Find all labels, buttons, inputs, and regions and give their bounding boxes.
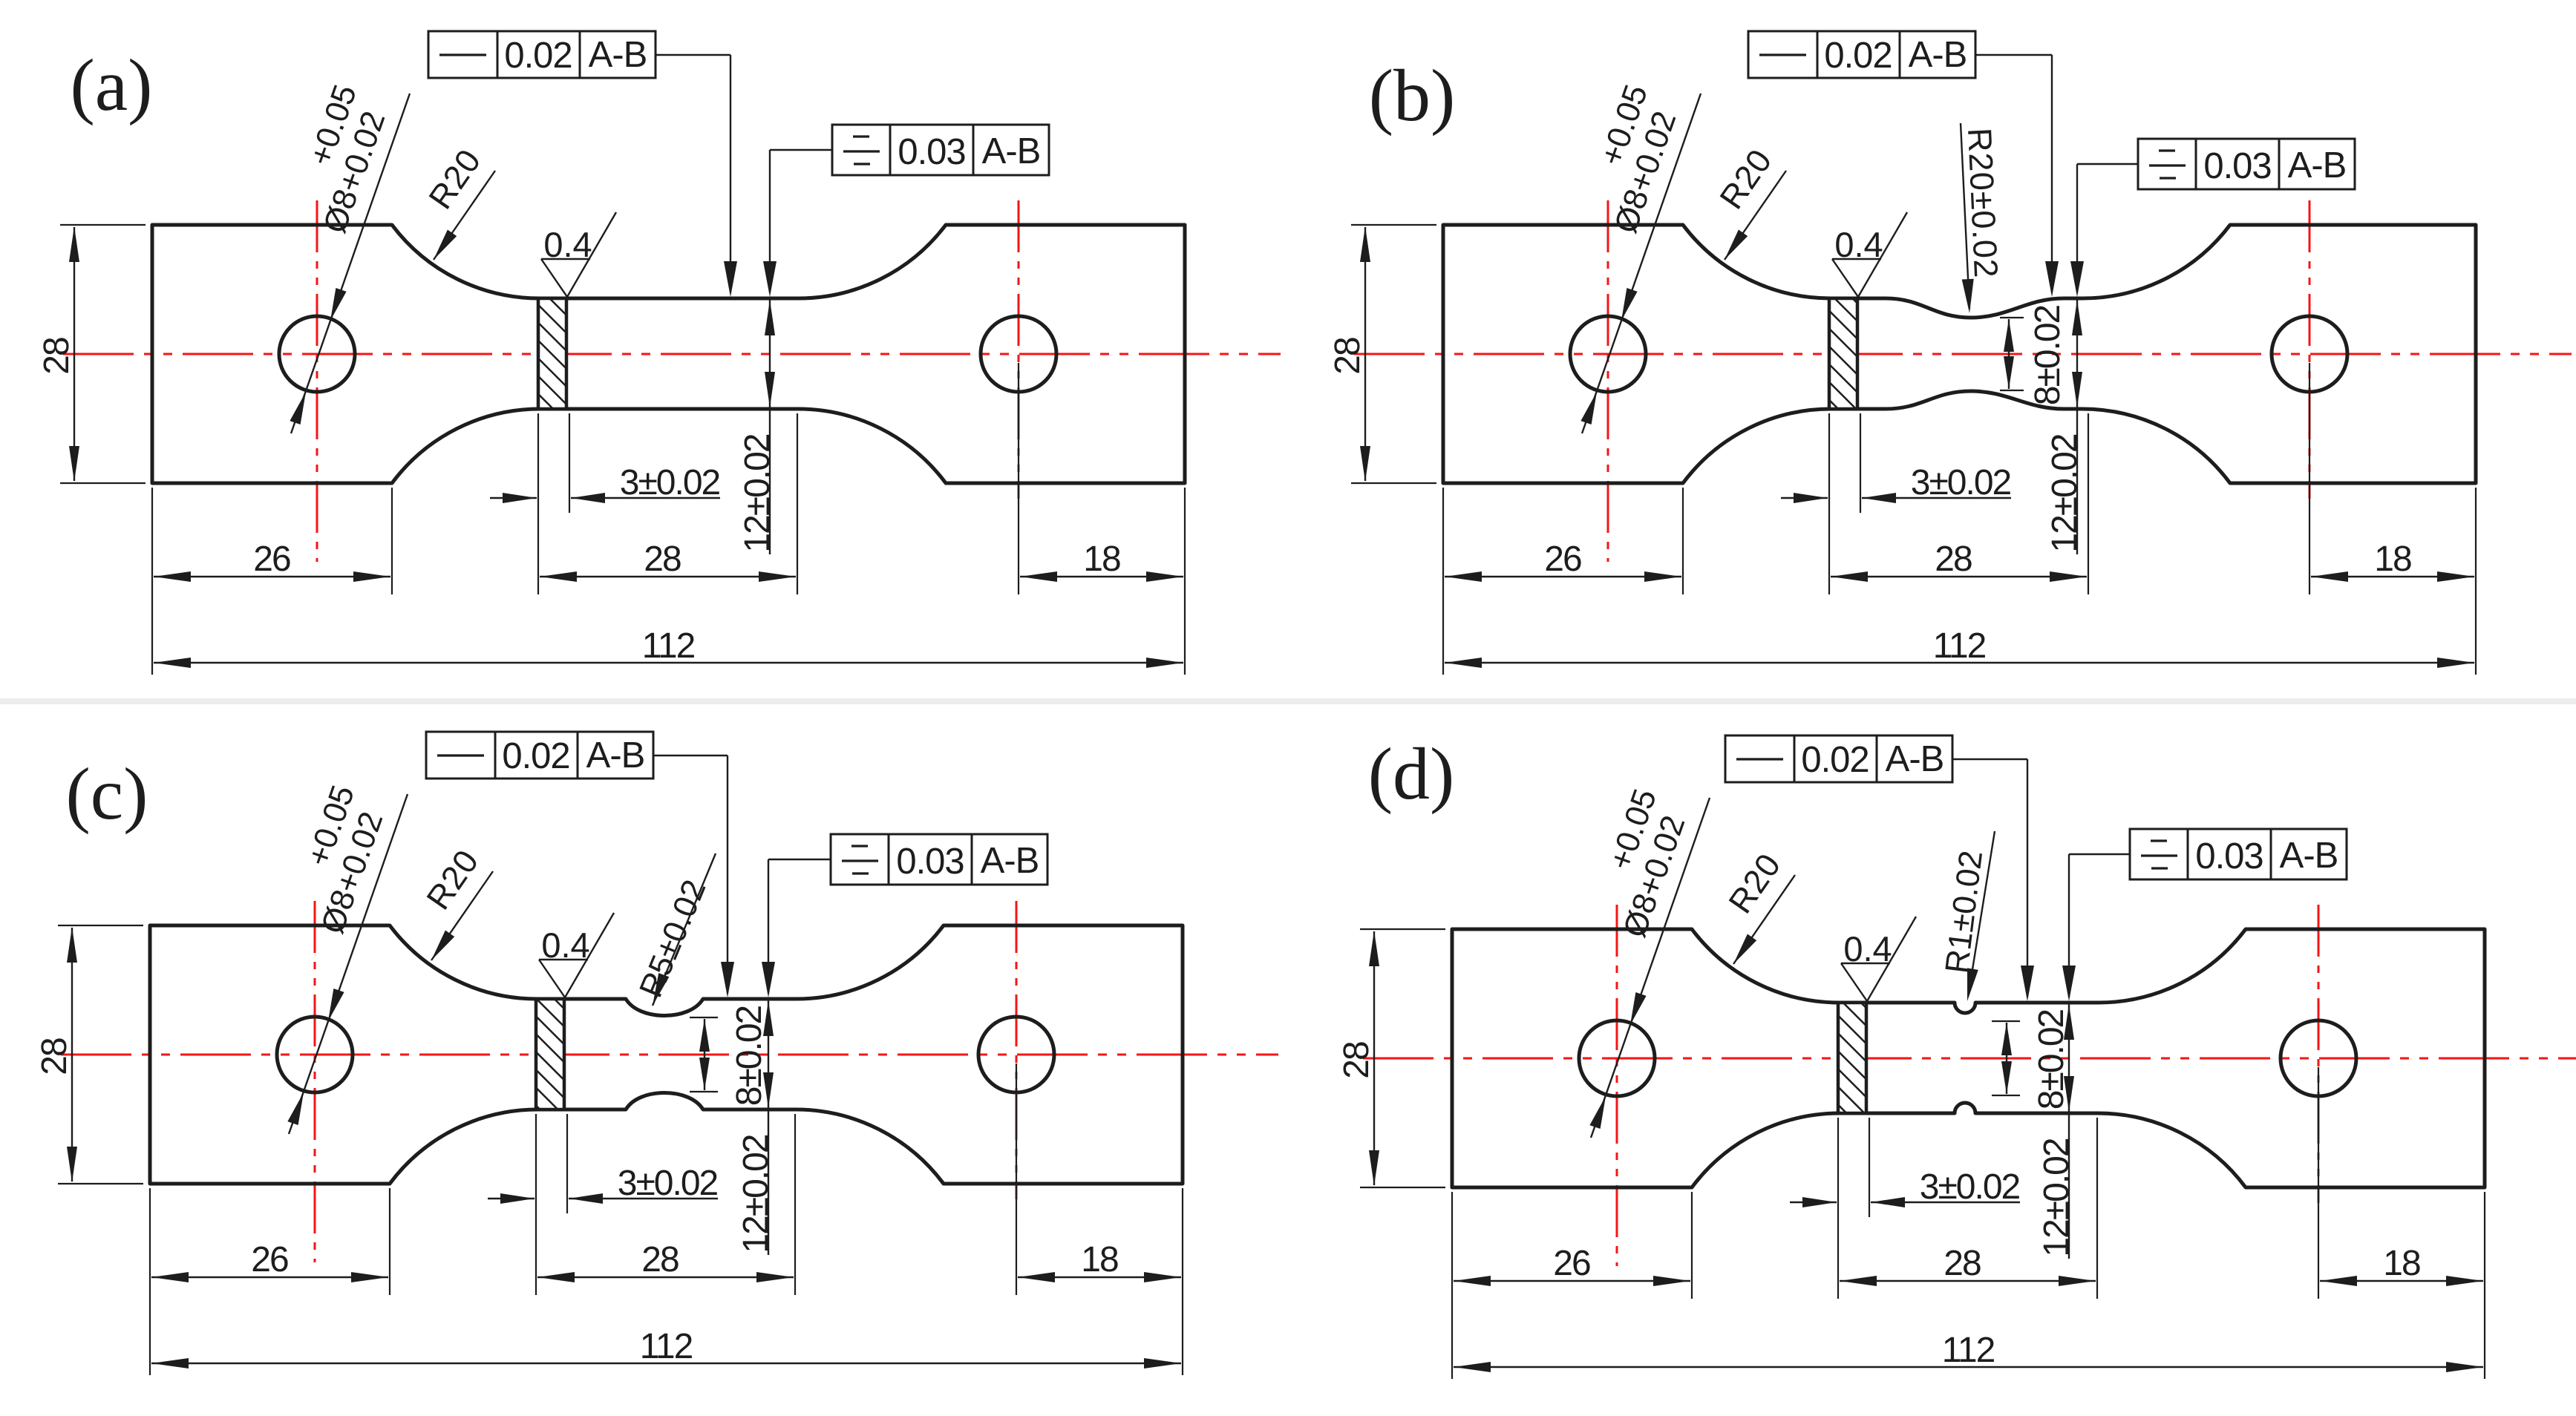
svg-text:0.03: 0.03 [898, 132, 965, 172]
svg-text:0.4: 0.4 [543, 225, 592, 264]
svg-text:0.03: 0.03 [2195, 836, 2263, 876]
svg-text:12±0.02: 12±0.02 [2037, 1138, 2076, 1256]
svg-text:0.4: 0.4 [541, 925, 589, 965]
svg-text:3±0.02: 3±0.02 [618, 1164, 718, 1203]
svg-text:28: 28 [641, 1240, 679, 1279]
svg-text:(c): (c) [66, 753, 148, 835]
svg-text:26: 26 [1553, 1244, 1590, 1283]
svg-text:A-B: A-B [586, 735, 645, 776]
svg-text:(a): (a) [71, 44, 153, 126]
svg-text:3±0.02: 3±0.02 [1920, 1167, 2020, 1207]
svg-text:28: 28 [35, 1038, 74, 1075]
svg-text:0.03: 0.03 [2203, 146, 2271, 186]
svg-text:12±0.02: 12±0.02 [738, 434, 777, 552]
svg-text:18: 18 [2383, 1244, 2420, 1283]
svg-text:18: 18 [1081, 1240, 1118, 1279]
svg-text:0.03: 0.03 [896, 842, 964, 882]
svg-text:(b): (b) [1369, 54, 1456, 137]
svg-text:A-B: A-B [1886, 739, 1944, 779]
svg-text:A-B: A-B [589, 35, 647, 75]
svg-text:26: 26 [1544, 540, 1581, 579]
svg-text:0.4: 0.4 [1843, 929, 1892, 968]
svg-text:3±0.02: 3±0.02 [1911, 463, 2011, 502]
svg-text:12±0.02: 12±0.02 [2045, 434, 2085, 552]
svg-text:112: 112 [640, 1327, 693, 1366]
svg-text:R20±0.02: R20±0.02 [1961, 127, 2005, 279]
svg-text:A-B: A-B [2288, 145, 2347, 186]
svg-text:26: 26 [251, 1240, 288, 1279]
svg-text:26: 26 [253, 540, 290, 579]
svg-text:0.4: 0.4 [1834, 225, 1883, 264]
svg-text:12±0.02: 12±0.02 [736, 1135, 776, 1253]
svg-text:18: 18 [1083, 540, 1120, 579]
svg-text:A-B: A-B [1909, 35, 1967, 75]
svg-text:(d): (d) [1368, 732, 1455, 815]
svg-text:0.02: 0.02 [1801, 740, 1869, 780]
svg-text:A-B: A-B [2280, 836, 2338, 876]
svg-text:A-B: A-B [981, 841, 1039, 881]
svg-text:8±0.02: 8±0.02 [730, 1006, 769, 1106]
svg-text:8±0.02: 8±0.02 [2028, 305, 2067, 405]
svg-text:28: 28 [644, 540, 681, 579]
svg-text:8±0.02: 8±0.02 [2032, 1009, 2071, 1109]
svg-text:0.02: 0.02 [502, 736, 569, 776]
svg-text:28: 28 [1328, 338, 1367, 375]
svg-text:112: 112 [1942, 1331, 1995, 1370]
svg-text:28: 28 [1944, 1244, 1981, 1283]
svg-text:0.02: 0.02 [504, 36, 572, 76]
svg-text:18: 18 [2374, 540, 2411, 579]
svg-text:112: 112 [1933, 626, 1986, 666]
svg-text:112: 112 [642, 626, 695, 666]
svg-text:3±0.02: 3±0.02 [620, 463, 720, 502]
svg-text:A-B: A-B [982, 131, 1041, 171]
svg-text:28: 28 [1935, 540, 1972, 579]
svg-text:28: 28 [1337, 1042, 1376, 1079]
svg-text:0.02: 0.02 [1824, 36, 1892, 76]
svg-text:28: 28 [37, 338, 76, 375]
